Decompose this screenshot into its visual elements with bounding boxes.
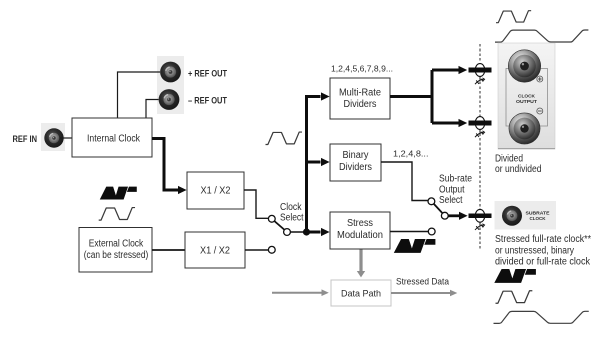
label Stressed full-rate clock** block <box>495 234 591 268</box>
svg-text:1,2,4,5,6,7,8,9...: 1,2,4,5,6,7,8,9... <box>331 64 393 74</box>
wire REF IN to Internal Clock <box>60 137 72 139</box>
svg-text:Divided: Divided <box>495 154 523 165</box>
block Internal Clock <box>72 118 152 157</box>
plus polarity mark <box>537 76 543 82</box>
switch Clock Select lever <box>272 219 287 232</box>
waveform icon bold stressed (bottom right) <box>494 269 536 283</box>
photo patch SUBRATE CLOCK <box>495 201 557 230</box>
label Sub-rate Output Select <box>439 174 472 207</box>
svg-text:or unstressed, binary: or unstressed, binary <box>495 246 574 257</box>
termination symbol at + clock output <box>469 64 492 85</box>
waveform icon bold stressed (left) <box>100 187 137 200</box>
gray arrow Stress Modulation down to Data Path <box>357 250 365 278</box>
svg-text:or undivided: or undivided <box>495 164 542 175</box>
waveform icon trapezoid (bottom right) <box>496 291 533 303</box>
switch contact internal <box>268 215 275 222</box>
svg-text:Stress: Stress <box>347 218 373 229</box>
waveform icon trapezoid (top right) <box>496 11 531 23</box>
svg-text:Stressed Data: Stressed Data <box>396 277 450 288</box>
trunk thick wire <box>307 97 321 233</box>
gray arrow into Data Path from left <box>272 289 329 296</box>
minus polarity mark <box>537 108 543 114</box>
waveform icon trapezoid (middle, above Clock Select) <box>266 132 303 144</box>
svg-text:OUTPUT: OUTPUT <box>516 99 537 104</box>
svg-text:Dividers: Dividers <box>344 99 377 110</box>
wire X1/X2 external to open contact <box>245 249 268 251</box>
svg-text:External Clock: External Clock <box>89 239 144 250</box>
sub-rate pole contact <box>441 212 448 219</box>
termination symbol at - clock output <box>469 117 492 138</box>
label Divided or undivided <box>495 154 542 176</box>
switch pole contact <box>284 229 291 236</box>
block Multi-Rate Dividers <box>330 78 390 119</box>
waveform icon smooth wide (top right) <box>495 30 588 42</box>
connector photo patch REF IN <box>41 123 65 151</box>
wire X1/X2 internal to Clock Select contact <box>244 190 268 218</box>
block External Clock <box>79 228 152 273</box>
svg-text:Data Path: Data Path <box>341 289 381 300</box>
termination symbol at subrate output <box>469 209 492 230</box>
wire External Clock to X1/X2 <box>152 249 185 251</box>
block X1/X2 internal <box>187 172 244 209</box>
block Data Path (gray) <box>331 280 391 306</box>
svg-text:Clock: Clock <box>280 202 302 213</box>
waveform icon bold stressed (middle, at Stress Modulation output) <box>394 239 436 253</box>
svg-text:Select: Select <box>280 213 304 224</box>
photo panel CLOCK OUTPUT <box>498 43 555 149</box>
dashed boundary line <box>479 44 481 250</box>
svg-text:REF IN: REF IN <box>13 133 38 144</box>
block Binary Dividers <box>330 144 381 181</box>
block Stress Modulation <box>330 212 390 249</box>
switch Sub-rate lever <box>431 201 444 215</box>
wire Internal Clock to – REF OUT <box>146 100 159 119</box>
wire pole to junction <box>290 231 306 233</box>
svg-text:X1 / X2: X1 / X2 <box>201 186 231 197</box>
svg-text:Sub-rate: Sub-rate <box>439 174 472 185</box>
svg-text:Multi-Rate: Multi-Rate <box>339 88 382 99</box>
svg-text:Binary: Binary <box>343 150 369 161</box>
wire Internal Clock to + REF OUT <box>118 72 161 118</box>
wire Binary Dividers to Sub-rate switch <box>381 162 428 201</box>
sub-rate contact stress (open) <box>428 228 435 235</box>
junction dot <box>303 228 310 235</box>
svg-text:Dividers: Dividers <box>339 162 372 173</box>
arrowhead into Multi-Rate Dividers <box>321 92 330 100</box>
sub-rate contact binary <box>428 198 435 205</box>
svg-text:Output: Output <box>439 185 465 196</box>
label Clock Select <box>280 202 304 224</box>
wire Stress Modulation to sub-rate open contact <box>390 231 428 233</box>
svg-text:CLOCK: CLOCK <box>518 94 536 99</box>
big connector knob + <box>508 50 540 82</box>
waveform icon smooth wide (bottom right) <box>494 311 589 323</box>
switch contact external (open) <box>268 246 275 253</box>
gray arrow Data Path out to right <box>391 290 457 297</box>
thick wire Multi-Rate Dividers to clock outputs <box>390 66 467 127</box>
svg-text:Select: Select <box>439 195 463 206</box>
svg-text:1,2,4,8...: 1,2,4,8... <box>393 149 429 159</box>
svg-text:(can be stressed): (can be stressed) <box>84 250 149 261</box>
svg-text:Modulation: Modulation <box>337 230 383 241</box>
svg-text:Internal Clock: Internal Clock <box>87 134 140 145</box>
svg-text:divided or full-rate clock: divided or full-rate clock <box>495 257 590 268</box>
block X1/X2 external <box>185 232 245 268</box>
thick arrow sub-rate pole to subrate output <box>448 212 467 220</box>
connector photo patch REF OUT pair <box>157 56 184 114</box>
branch wire to Binary Dividers <box>307 161 321 164</box>
svg-text:Stressed full-rate clock**: Stressed full-rate clock** <box>495 234 591 245</box>
waveform icon trapezoid (left) <box>99 208 135 221</box>
arrowhead into Binary Dividers <box>321 158 330 166</box>
svg-text:+ REF OUT: + REF OUT <box>188 68 227 79</box>
svg-text:CLOCK: CLOCK <box>530 216 547 221</box>
big connector knob - <box>509 113 540 144</box>
svg-text:– REF OUT: – REF OUT <box>188 95 227 106</box>
branch wire to Stress Modulation <box>307 231 321 234</box>
svg-text:X1 / X2: X1 / X2 <box>200 246 230 257</box>
svg-text:SUBRATE: SUBRATE <box>526 211 550 216</box>
arrowhead into Stress Modulation <box>321 228 330 236</box>
thick wire Internal Clock to X1/X2 with arrowhead <box>152 139 187 195</box>
